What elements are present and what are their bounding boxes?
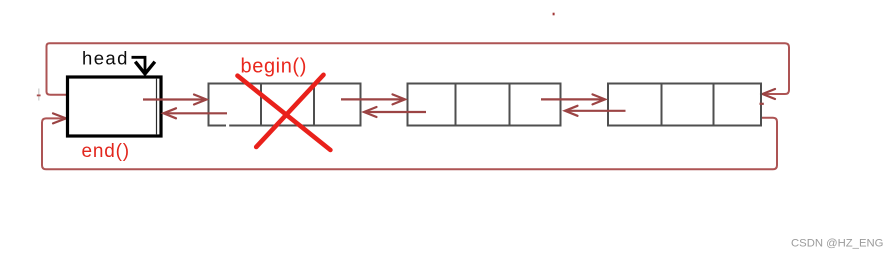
- svg-text:begin(): begin(): [241, 55, 307, 77]
- svg-text:end(): end(): [82, 141, 130, 162]
- svg-text:head: head: [82, 48, 129, 69]
- svg-text:CSDN @HZ_ENG: CSDN @HZ_ENG: [791, 237, 883, 249]
